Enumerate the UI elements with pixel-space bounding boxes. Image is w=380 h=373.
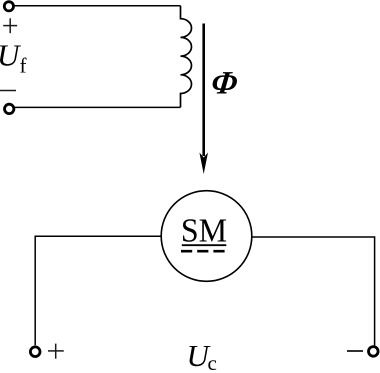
inductor L1 (field winding) (181, 6, 192, 108)
label Uc (187, 338, 217, 373)
terminal T4 (Uc −) (369, 347, 379, 357)
terminal T3 (Uc +) (30, 347, 40, 357)
label Uf (0, 38, 27, 78)
svg-text:f: f (20, 54, 27, 78)
minus label (Uc) (347, 350, 363, 352)
svg-text:Φ: Φ (209, 66, 239, 102)
flux arrow (199, 24, 208, 175)
svg-text:SM: SM (181, 213, 227, 250)
wire: motor right to T4 (252, 237, 375, 346)
motor circle M1 (SM) (161, 191, 252, 282)
plus label (Uc) (48, 344, 64, 359)
label SM (181, 213, 227, 250)
svg-text:c: c (208, 351, 217, 373)
terminal T1 (Uf +) (4, 2, 13, 11)
wire: motor left to T3 (35, 236, 161, 345)
wire: T2 to inductor bottom (14, 106, 181, 108)
terminal T2 (Uf −) (5, 104, 14, 113)
wire: T1 to inductor top (14, 5, 181, 7)
plus label (field) (3, 18, 17, 33)
dashed line under SM (181, 250, 225, 253)
minus label (field) (0, 90, 16, 92)
